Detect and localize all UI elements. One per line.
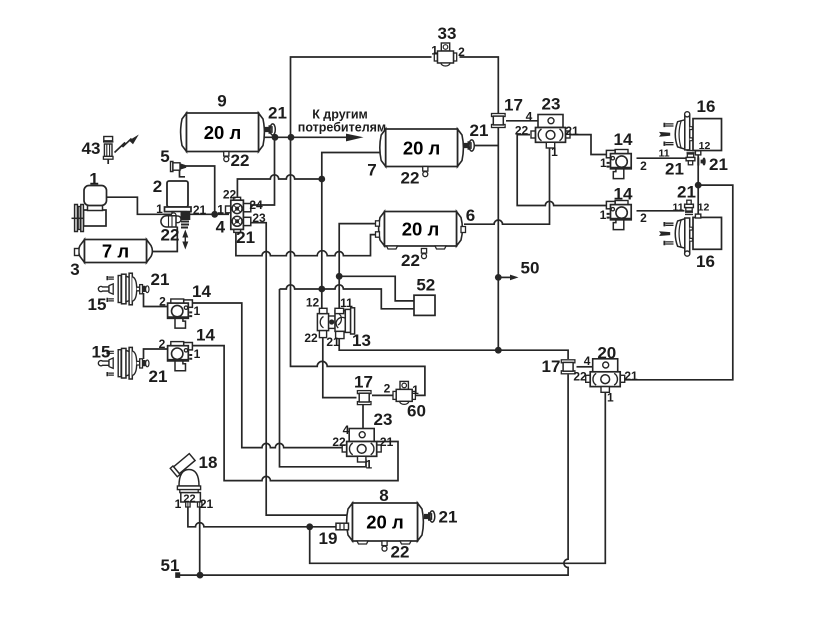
svg-text:7: 7 [367,161,376,180]
svg-text:52: 52 [416,276,435,295]
svg-text:17: 17 [354,373,373,392]
svg-text:20: 20 [597,344,616,363]
svg-text:21: 21 [624,369,638,383]
svg-text:4: 4 [216,218,226,237]
svg-text:17: 17 [542,357,561,376]
svg-text:1: 1 [217,202,224,216]
svg-text:60: 60 [407,402,426,421]
svg-text:20 л: 20 л [204,122,241,143]
svg-text:22: 22 [183,493,195,505]
svg-text:2: 2 [640,211,647,225]
svg-text:14: 14 [192,282,211,301]
svg-text:15: 15 [88,295,107,314]
svg-text:11: 11 [672,201,683,213]
svg-text:1: 1 [193,304,200,318]
svg-text:11: 11 [658,147,669,159]
svg-text:1: 1 [156,202,163,216]
svg-text:16: 16 [696,252,715,271]
svg-text:20 л: 20 л [402,218,439,239]
svg-text:21: 21 [380,435,394,449]
svg-text:1: 1 [194,347,201,361]
svg-text:7 л: 7 л [102,241,129,262]
svg-text:51: 51 [161,556,180,575]
svg-text:4: 4 [584,354,591,368]
svg-text:6: 6 [466,206,475,225]
svg-text:5: 5 [160,147,169,166]
svg-text:1: 1 [607,391,614,405]
svg-text:11: 11 [340,296,353,310]
svg-text:21: 21 [200,497,214,511]
svg-text:20 л: 20 л [403,137,440,158]
svg-text:8: 8 [379,486,388,505]
svg-text:2: 2 [159,294,166,308]
svg-text:1: 1 [600,208,607,222]
svg-text:К другим: К другим [312,108,368,122]
svg-text:22: 22 [515,123,529,137]
svg-text:2: 2 [640,159,647,173]
svg-text:22: 22 [573,369,587,383]
svg-text:16: 16 [697,97,716,116]
svg-text:24: 24 [249,198,263,212]
svg-text:20 л: 20 л [366,512,403,533]
svg-text:1: 1 [600,156,607,170]
svg-text:19: 19 [319,529,338,548]
svg-text:1: 1 [551,145,558,159]
svg-text:2: 2 [384,381,391,395]
svg-text:2: 2 [159,337,166,351]
svg-text:21: 21 [565,124,579,138]
svg-text:1: 1 [175,497,182,511]
svg-text:21: 21 [268,104,287,123]
svg-text:22: 22 [223,187,237,201]
svg-text:17: 17 [504,96,523,115]
svg-text:43: 43 [82,139,101,158]
svg-text:1: 1 [89,170,98,189]
svg-text:21: 21 [326,335,340,349]
svg-text:14: 14 [196,326,215,345]
svg-text:23: 23 [252,211,266,225]
svg-text:21: 21 [149,367,168,386]
svg-text:потребителям: потребителям [298,121,386,135]
svg-text:13: 13 [352,331,371,350]
svg-text:3: 3 [70,260,79,279]
svg-text:21: 21 [439,508,458,527]
svg-text:21: 21 [709,155,728,174]
svg-text:22: 22 [332,435,346,449]
svg-text:12: 12 [699,140,711,152]
svg-text:1: 1 [412,383,419,397]
svg-text:21: 21 [193,203,207,217]
svg-text:1: 1 [431,43,438,57]
svg-text:50: 50 [521,259,540,278]
svg-text:22: 22 [304,331,318,345]
svg-text:15: 15 [92,343,111,362]
svg-text:21: 21 [470,121,489,140]
svg-text:12: 12 [306,295,320,309]
svg-text:21: 21 [665,160,684,179]
svg-text:21: 21 [236,228,255,247]
svg-text:14: 14 [614,185,633,204]
svg-text:22: 22 [401,251,420,270]
svg-text:22: 22 [401,169,420,188]
svg-text:22: 22 [231,151,250,170]
svg-text:12: 12 [698,201,710,213]
svg-text:21: 21 [151,270,170,289]
svg-text:1: 1 [366,457,373,471]
svg-text:2: 2 [153,177,162,196]
svg-text:9: 9 [217,92,226,111]
svg-text:22: 22 [391,543,410,562]
svg-text:33: 33 [438,24,457,43]
svg-text:18: 18 [199,453,218,472]
svg-text:23: 23 [542,95,561,114]
svg-text:23: 23 [374,410,393,429]
svg-text:2: 2 [458,45,465,59]
svg-text:22: 22 [161,226,180,245]
svg-text:4: 4 [526,109,533,123]
svg-text:14: 14 [614,130,633,149]
svg-text:21: 21 [677,183,696,202]
